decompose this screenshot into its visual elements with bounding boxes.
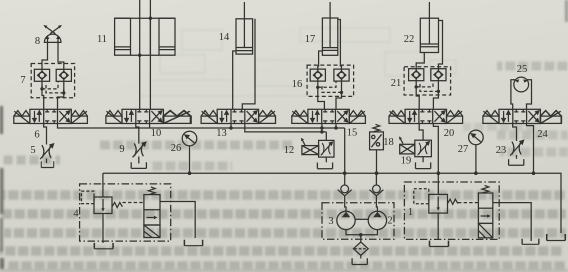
- svg-text:4: 4: [73, 209, 79, 220]
- node 7b: [62, 91, 65, 94]
- node 7a: [40, 87, 43, 90]
- node 11a: [138, 54, 141, 57]
- tank under 9: [131, 162, 146, 168]
- node 21b: [437, 90, 440, 93]
- tank under relief 4: [94, 243, 113, 249]
- node railA-15L: [320, 126, 323, 129]
- throttle valve 23: [510, 140, 523, 155]
- pressure gauge 27: [469, 130, 484, 145]
- pilot lines 21: [416, 81, 438, 92]
- cylinder 14: [236, 2, 253, 54]
- svg-text:20: 20: [444, 128, 455, 139]
- background bleed-through text (back of page): [0, 66, 568, 266]
- node bus-344: [343, 171, 347, 175]
- relief unit 4 dash-dot box: [80, 184, 171, 241]
- node railA-13: [229, 126, 232, 129]
- svg-text:6: 6: [34, 130, 39, 141]
- pressure switch 18: [370, 124, 384, 149]
- svg-text:5: 5: [30, 145, 35, 156]
- tank for unload 1: [522, 239, 539, 245]
- svg-text:8: 8: [35, 36, 40, 47]
- unloading valve (of 4): [144, 187, 160, 238]
- flow control valve 19: [399, 136, 431, 156]
- svg-text:11: 11: [97, 34, 107, 45]
- pilot check bridge 7 (dashed box): [31, 64, 74, 98]
- svg-text:9: 9: [119, 144, 124, 155]
- node bus-1: [437, 171, 441, 175]
- wire: valve 10 to throttle 9: [136, 124, 139, 164]
- wire: valve 20 to flow control 19: [419, 124, 423, 163]
- wire: unload 4 to tank: [160, 202, 195, 239]
- svg-text:2: 2: [387, 216, 392, 227]
- svg-text:16: 16: [292, 79, 303, 90]
- svg-text:15: 15: [347, 128, 358, 139]
- tank under 12: [317, 163, 332, 169]
- node bus-18: [375, 171, 379, 175]
- check valve 21 left: [409, 69, 424, 81]
- node railA-15R: [334, 126, 337, 129]
- tank for unload 4: [184, 240, 202, 246]
- directional valve 6: [14, 109, 88, 123]
- pilot line relief 1 to unload valve: [458, 202, 478, 204]
- node railB-15: [320, 130, 323, 133]
- cylinder 11 (twin barrels): [115, 18, 175, 55]
- svg-text:10: 10: [151, 128, 162, 139]
- pump unit dash-dot box: [322, 203, 394, 240]
- svg-text:23: 23: [496, 145, 507, 156]
- wire: pump link: [355, 218, 368, 220]
- check valve 7 right: [56, 69, 71, 81]
- node suction: [359, 233, 363, 237]
- tank under relief 1: [430, 241, 449, 247]
- wire: bridge 16 to valve 15: [318, 81, 342, 109]
- svg-text:22: 22: [404, 34, 415, 45]
- right tank: [547, 234, 566, 241]
- svg-text:17: 17: [305, 34, 316, 45]
- svg-text:27: 27: [458, 144, 469, 155]
- faint bleed shapes top: [140, 28, 456, 96]
- directional valve 15: [292, 109, 366, 123]
- wire: spray 8 legs down to check bridge 7: [42, 42, 64, 69]
- wire: valve 24 right port to bus: [527, 124, 534, 174]
- pilot relief valve 4: [81, 191, 122, 213]
- wire: bridge 21 to valve 20: [416, 81, 438, 110]
- wire: pump suction: [346, 230, 377, 242]
- node 11b: [149, 17, 152, 20]
- directional valve 24: [483, 109, 561, 123]
- wire: gauge 27 to bus: [475, 145, 477, 174]
- check valve 16 left: [310, 69, 325, 81]
- check valve (pump 3): [338, 185, 352, 196]
- wire: cylinder 17 to bridge 16: [318, 20, 342, 70]
- throttle valve 9: [133, 142, 146, 157]
- pilot lines 16: [318, 81, 342, 92]
- wire: check to pump 2: [376, 173, 377, 211]
- pilot lines 7: [42, 81, 64, 93]
- wire: main return bus: [103, 173, 561, 233]
- node bus-27: [474, 171, 478, 175]
- node 16b: [340, 91, 343, 94]
- svg-text:25: 25: [517, 64, 528, 75]
- wire: bridge 7 to valve 6: [42, 81, 64, 109]
- pressure gauge 26: [182, 131, 197, 146]
- check valve 16 right: [334, 69, 349, 81]
- wire: filter to tank: [360, 255, 362, 258]
- node 16a: [316, 86, 319, 89]
- wire: gauge 26 to bus: [189, 146, 191, 173]
- node bus-26: [188, 171, 192, 175]
- node bus-24: [532, 171, 536, 175]
- filter: [353, 242, 368, 255]
- pilot relief valve 1: [414, 189, 458, 213]
- wire: cylinder 11 rods/pipes: [140, 0, 151, 109]
- tank under 19: [416, 162, 431, 168]
- svg-text:12: 12: [284, 145, 295, 156]
- wire: unload 1 to tank: [493, 203, 531, 241]
- throttle valve 5: [40, 144, 53, 159]
- svg-text:3: 3: [328, 216, 333, 227]
- check valve (pump 2): [369, 185, 383, 196]
- directional valve 20: [389, 109, 463, 123]
- wire: valve 24 to throttle 23: [513, 124, 517, 159]
- wire: motor 25 to valve 24: [511, 80, 532, 110]
- wire: switch 18 to bus: [376, 150, 378, 173]
- svg-text:19: 19: [401, 156, 412, 167]
- spray nozzle 8: [43, 25, 62, 43]
- tank under 5: [41, 161, 53, 167]
- wire: bus into relief 4: [102, 173, 104, 197]
- wire: pressure rail B: [245, 124, 336, 132]
- hydraulic motor 25: [514, 77, 529, 92]
- svg-text:14: 14: [219, 32, 230, 43]
- svg-text:7: 7: [20, 75, 25, 86]
- svg-text:1: 1: [408, 207, 413, 218]
- cylinder 22: [420, 2, 438, 53]
- pump 3: [337, 211, 355, 229]
- wire: valve 6 to throttle 5: [44, 124, 47, 164]
- check valve 21 right: [431, 69, 446, 81]
- wire: cylinder 22 to bridge 21: [416, 21, 442, 69]
- cylinder 17: [322, 2, 337, 55]
- svg-text:21: 21: [391, 78, 402, 89]
- svg-text:26: 26: [171, 143, 182, 154]
- wire: relief 4 to tank: [102, 214, 104, 243]
- pilot check bridge 21 (dashed box): [404, 67, 451, 95]
- directional valve 10: [106, 109, 191, 123]
- tank under 23: [509, 159, 524, 165]
- wire: rail B through valve 12 to tank: [325, 132, 327, 162]
- wire: check to pump 3: [345, 196, 346, 211]
- node 21a: [415, 85, 418, 88]
- flow control valve 12: [301, 138, 334, 157]
- wire: valve 20 riser through bus into relief 1: [433, 124, 438, 195]
- unloading valve (of 1): [478, 185, 492, 237]
- svg-text:18: 18: [383, 137, 394, 148]
- pump 2: [368, 211, 386, 229]
- wire: pressure rail A: [58, 124, 345, 129]
- svg-text:13: 13: [216, 128, 227, 139]
- wire: cylinder 14 to valve 13: [233, 19, 255, 110]
- check valve 7 left: [34, 69, 49, 81]
- directional valve 13: [201, 109, 275, 123]
- suction tank: [352, 258, 367, 264]
- relief unit 1 dash-dot box: [404, 182, 499, 239]
- wire: relief 1 to tank: [437, 213, 439, 240]
- svg-text:24: 24: [537, 129, 548, 140]
- wire: rail A riser to check valve: [344, 128, 346, 185]
- pilot check bridge 16 (dashed box): [307, 65, 354, 96]
- pilot line relief 4 to unload valve: [123, 202, 144, 204]
